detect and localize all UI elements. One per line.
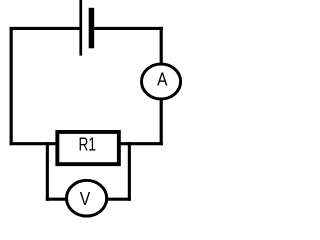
wire: voltmeter branch horizontal [46, 198, 131, 201]
wire: left vertical side of loop [10, 27, 13, 145]
battery: long terminal plate [79, 0, 82, 56]
voltmeter meter ellipse [67, 180, 107, 216]
wire: voltmeter branch right drop [128, 142, 131, 201]
resistor R1 body [57, 132, 119, 164]
wire: right vertical side of loop [160, 27, 163, 145]
wire: bottom wire [10, 142, 163, 145]
wire: top wire left segment (to battery long plate) [10, 27, 81, 30]
battery: short thick terminal plate [89, 8, 95, 49]
ammeter meter ellipse [142, 64, 181, 99]
wire: top wire right segment (battery bar to right side) [94, 27, 163, 30]
svg-text:R1: R1 [78, 135, 95, 155]
svg-text:A: A [157, 69, 168, 90]
wire: voltmeter branch left drop [46, 142, 49, 201]
svg-text:V: V [80, 188, 91, 210]
